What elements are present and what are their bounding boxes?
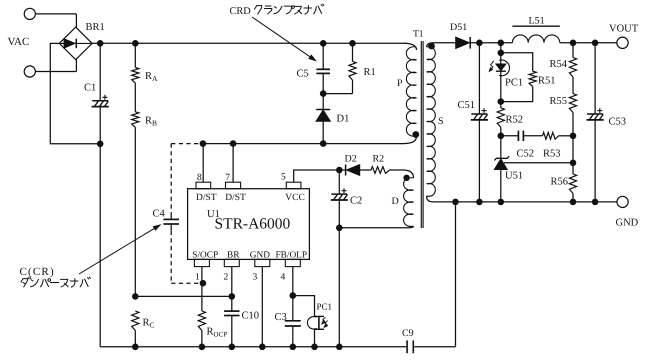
svg-text:P: P: [397, 78, 403, 89]
svg-text:D2: D2: [345, 154, 357, 165]
svg-text:C(CR): C(CR): [20, 266, 55, 278]
svg-text:8: 8: [197, 173, 202, 183]
svg-text:BR: BR: [227, 251, 240, 261]
svg-text:R56: R56: [551, 177, 569, 188]
svg-text:L51: L51: [529, 16, 545, 27]
svg-text:R2: R2: [373, 154, 385, 165]
svg-text:7: 7: [225, 173, 230, 183]
svg-text:R53: R53: [543, 149, 561, 160]
svg-text:C10: C10: [242, 311, 260, 322]
svg-text:D1: D1: [337, 114, 350, 125]
svg-text:BR1: BR1: [86, 22, 105, 33]
svg-text:C9: C9: [402, 328, 414, 339]
svg-text:T1: T1: [413, 30, 424, 40]
svg-text:R52: R52: [506, 115, 524, 126]
svg-text:VOUT: VOUT: [609, 24, 639, 35]
svg-text:3: 3: [253, 273, 258, 283]
svg-text:2: 2: [224, 273, 229, 283]
svg-text:U51: U51: [505, 171, 523, 182]
svg-text:R55: R55: [550, 96, 568, 107]
svg-text:C2: C2: [350, 196, 362, 207]
svg-text:C1: C1: [84, 83, 96, 94]
svg-text:STR-A6000: STR-A6000: [215, 216, 291, 233]
svg-text:VAC: VAC: [8, 36, 30, 48]
svg-text:4: 4: [281, 273, 286, 283]
svg-text:S: S: [438, 116, 444, 127]
svg-text:VCC: VCC: [285, 193, 305, 203]
svg-text:D/ST: D/ST: [225, 193, 246, 203]
svg-text:R51: R51: [538, 76, 556, 87]
svg-text:D: D: [392, 196, 399, 207]
svg-text:C52: C52: [517, 149, 535, 160]
svg-text:D/ST: D/ST: [196, 193, 217, 203]
svg-text:C5: C5: [297, 69, 309, 80]
svg-text:C3: C3: [275, 312, 287, 323]
svg-text:PC1: PC1: [505, 78, 523, 89]
svg-text:PC1: PC1: [317, 302, 333, 312]
svg-text:C51: C51: [458, 100, 476, 111]
svg-text:C53: C53: [609, 117, 627, 128]
svg-text:D51: D51: [450, 22, 467, 33]
svg-text:5: 5: [281, 173, 286, 183]
svg-text:C4: C4: [153, 209, 166, 220]
svg-text:R54: R54: [550, 59, 568, 70]
svg-text:R1: R1: [364, 67, 376, 78]
svg-text:1: 1: [195, 273, 200, 283]
svg-text:FB/OLP: FB/OLP: [276, 251, 308, 261]
svg-text:GND: GND: [250, 251, 270, 261]
svg-text:CRD: CRD: [230, 6, 252, 17]
svg-text:GND: GND: [616, 218, 639, 229]
svg-text:S/OCP: S/OCP: [192, 251, 218, 261]
